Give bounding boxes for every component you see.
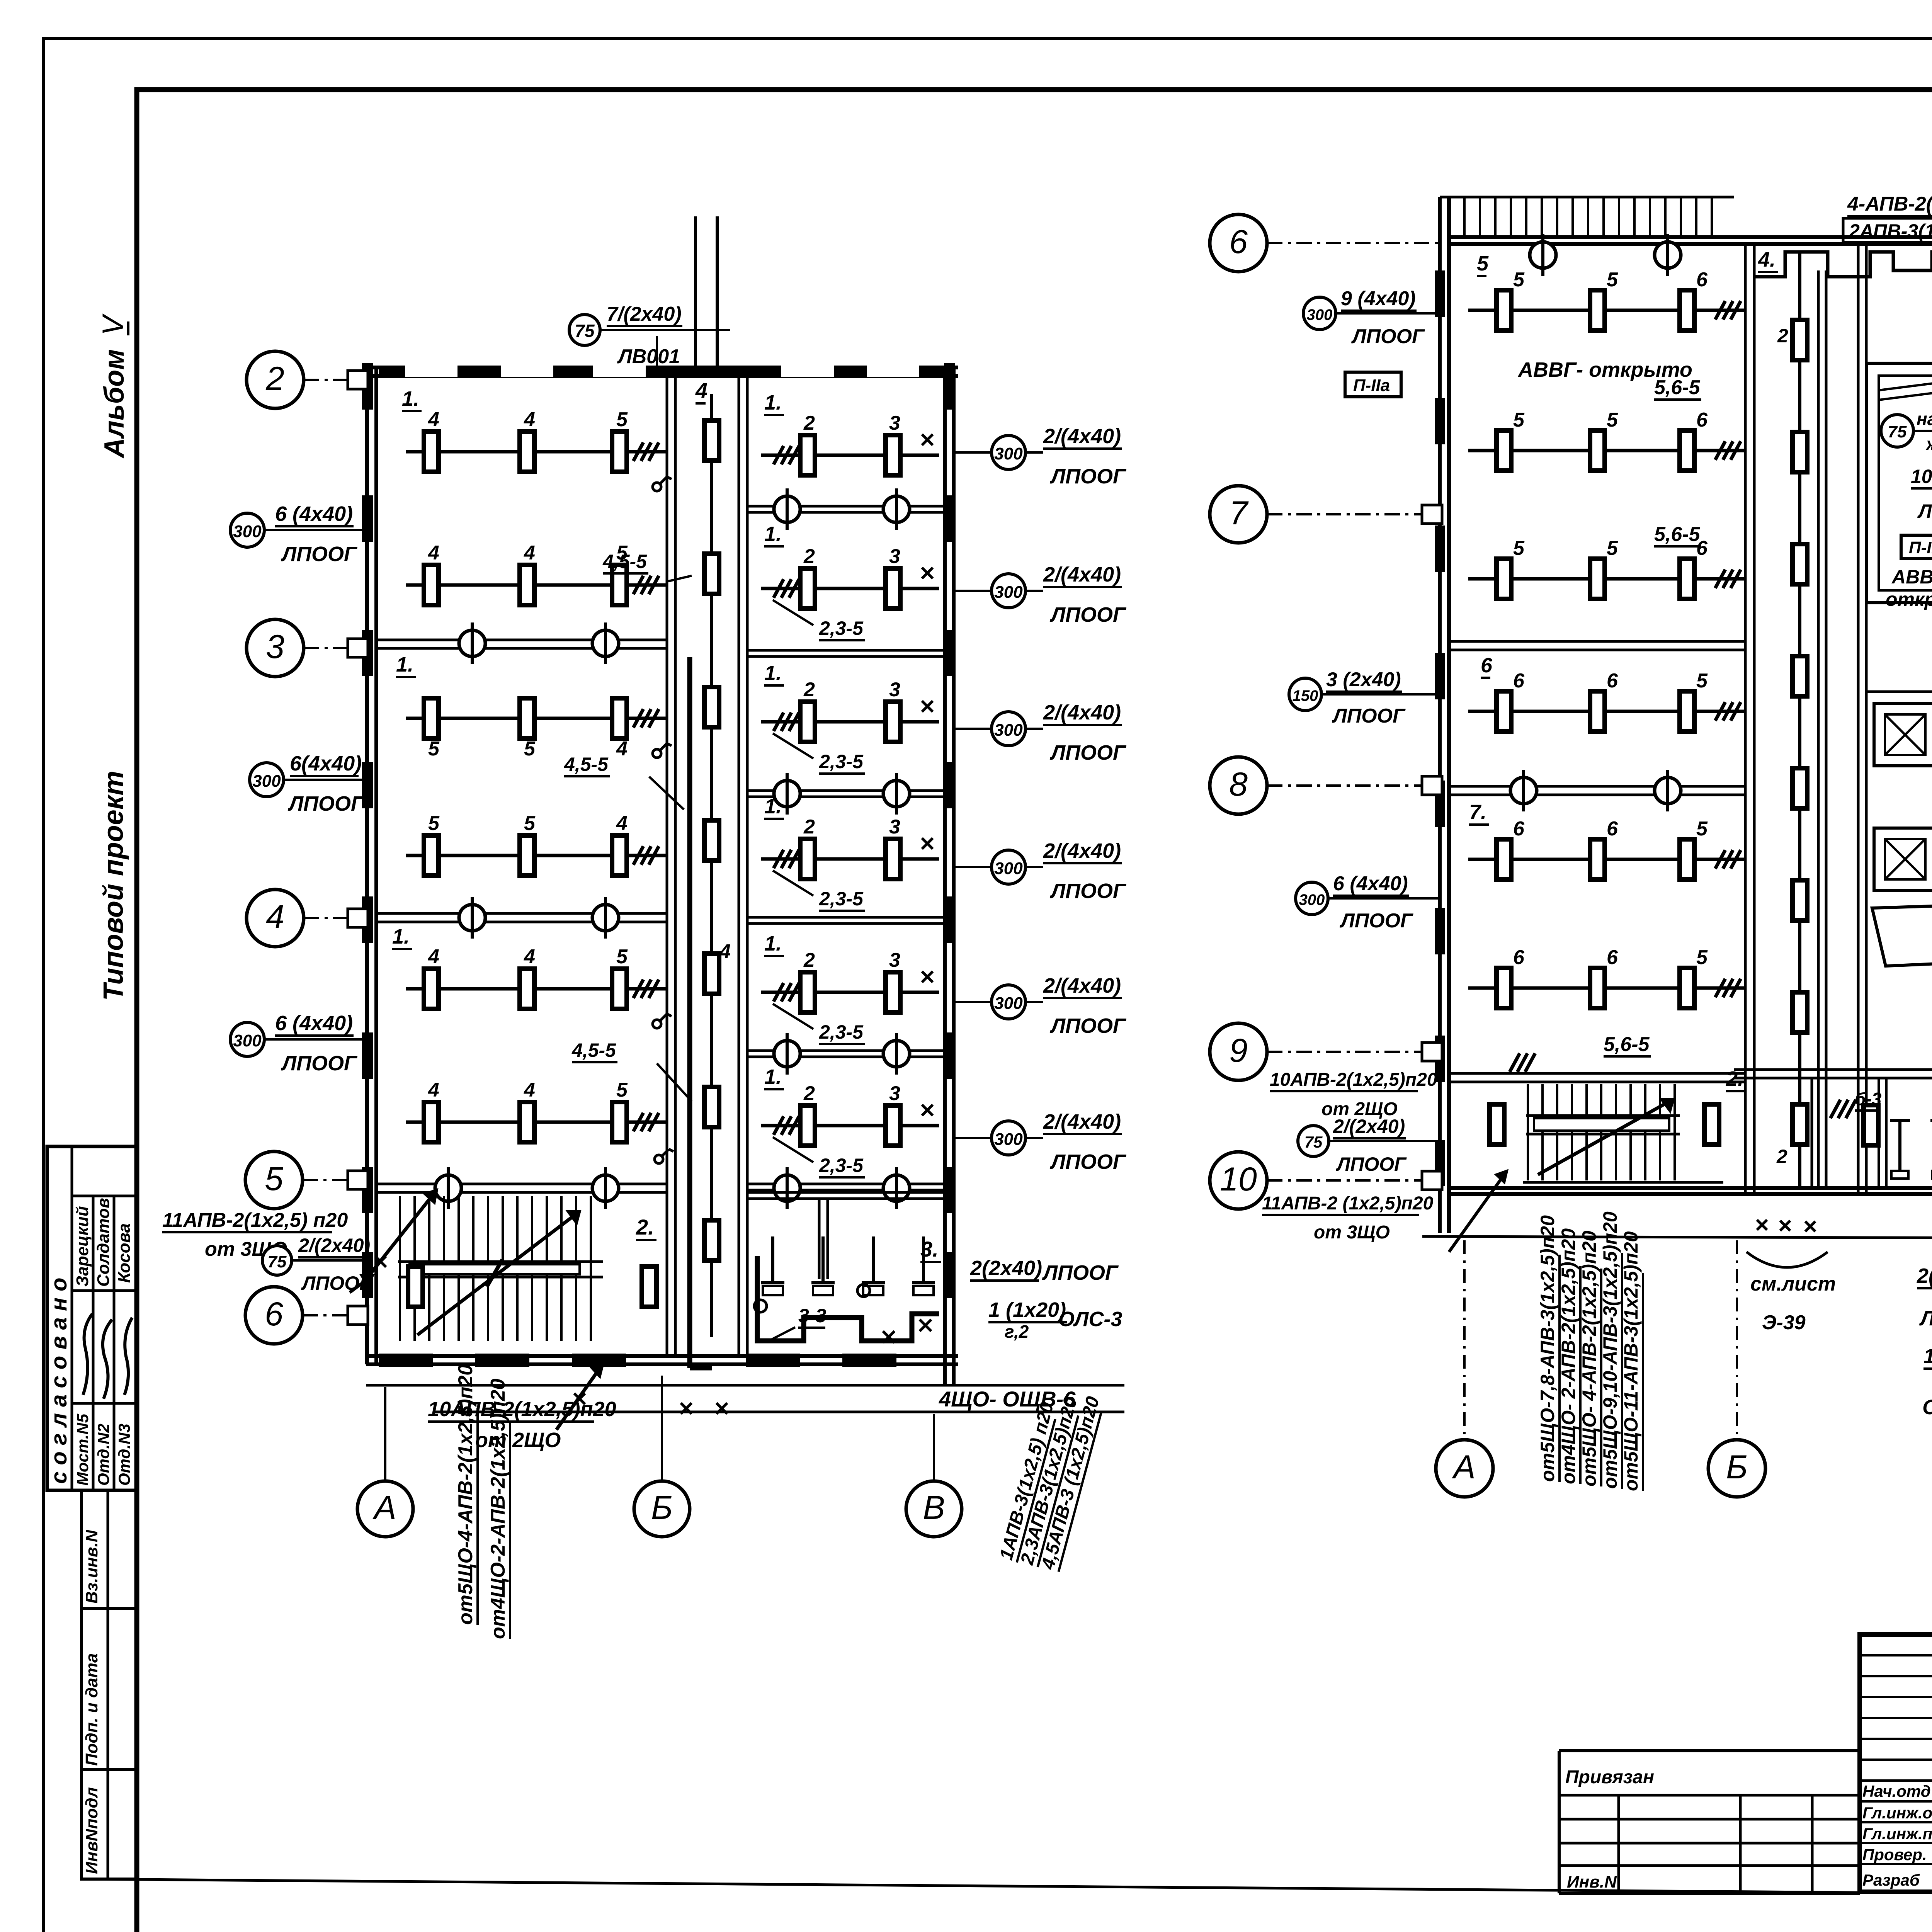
- svg-text:2(2х40): 2(2х40): [1917, 1264, 1932, 1287]
- svg-text:3: 3: [889, 816, 900, 838]
- svg-text:75: 75: [575, 321, 595, 341]
- title block role/name rows: [1862, 1781, 1932, 1889]
- strip text: Подп. и дата (rotated): [82, 1653, 101, 1766]
- svg-text:1.: 1.: [764, 1065, 782, 1088]
- stamp names (rotated): [73, 1198, 134, 1287]
- svg-text:2: 2: [803, 679, 815, 701]
- svg-text:Провер.: Провер.: [1862, 1845, 1927, 1864]
- svg-text:Гл.инж.пр: Гл.инж.пр: [1862, 1825, 1932, 1843]
- left plan: corridor walls: [667, 376, 747, 1356]
- svg-text:от 3ЩО: от 3ЩО: [1314, 1222, 1390, 1243]
- svg-text:ЛПООГ: ЛПООГ: [1332, 705, 1406, 727]
- bottom axis circle Б (right plan): [1708, 1240, 1765, 1497]
- svg-text:6: 6: [1513, 818, 1525, 840]
- right plan corridor riser wires: [1818, 270, 1826, 1188]
- feeder 300 2/(4x40) ЛПООГ east 3: [954, 701, 1127, 764]
- note 3-3: [769, 1305, 826, 1341]
- label 3. (sanitary): [920, 1237, 941, 1262]
- corridor labels 2: [1776, 325, 1788, 1167]
- west wing luminaire row 6 (circuit line): [406, 1079, 667, 1142]
- svg-text:4: 4: [428, 408, 439, 431]
- elevator shaft 2: [1874, 828, 1932, 890]
- svg-text:8: 8: [1229, 766, 1248, 803]
- svg-text:2/(4х40): 2/(4х40): [1043, 701, 1121, 724]
- svg-text:6: 6: [1607, 946, 1618, 969]
- svg-text:2/(4х40): 2/(4х40): [1043, 974, 1121, 997]
- svg-text:ЛПООГ: ЛПООГ: [1336, 1153, 1407, 1175]
- svg-text:Подп. и дата: Подп. и дата: [82, 1653, 101, 1766]
- axis circle 8 (right plan): [1210, 757, 1440, 814]
- svg-text:5: 5: [524, 738, 536, 760]
- svg-text:1.: 1.: [764, 662, 782, 685]
- svg-text:2: 2: [803, 816, 815, 838]
- inventory strip boxes: [82, 1490, 137, 1879]
- svg-text:2,3-5: 2,3-5: [819, 1155, 864, 1176]
- feeder 75 2(2x40) ЛПООГ (right plan): [1298, 1116, 1440, 1175]
- west wing switch drops: [653, 477, 673, 1163]
- svg-text:300: 300: [233, 1031, 262, 1050]
- axis circle 10 (right plan): [1210, 1152, 1440, 1209]
- left plan: interior walls east wing: [747, 506, 945, 1190]
- svg-text:ОЛС-3: ОЛС-3: [1058, 1308, 1122, 1331]
- svg-text:2,3-5: 2,3-5: [819, 617, 864, 639]
- feeder 300 2/(4x40) ЛПООГ east 5: [954, 974, 1127, 1037]
- west wing note 4,5-5: [602, 551, 692, 582]
- corridor switch riser wire: [690, 657, 712, 1368]
- label 2. (stair room): [636, 1215, 656, 1240]
- west wing note 4,5-5 (3): [571, 1039, 692, 1101]
- svg-text:П-IIа: П-IIа: [1909, 538, 1932, 557]
- left plan: exterior walls: [366, 367, 1124, 1385]
- ceiling lamps on west wing walls (right plan): [1510, 770, 1681, 811]
- right plan west wing luminaire row 2: [1468, 409, 1745, 471]
- label АВВГ-открыто: [1517, 358, 1692, 381]
- svg-text:Косова: Косова: [115, 1223, 134, 1283]
- east wing luminaire row 6: [761, 1082, 939, 1146]
- svg-text:6: 6: [1607, 818, 1618, 840]
- svg-text:300: 300: [994, 994, 1023, 1013]
- svg-text:3 (2х40): 3 (2х40): [1326, 668, 1401, 691]
- svg-text:2(2х40): 2(2х40): [970, 1257, 1042, 1280]
- svg-text:Отд.N3: Отд.N3: [115, 1423, 133, 1486]
- approval stamp box: [47, 1146, 137, 1490]
- svg-text:3: 3: [889, 412, 900, 434]
- svg-text:1.: 1.: [392, 925, 410, 948]
- svg-text:ЛПООГ: ЛПООГ: [1919, 1307, 1932, 1330]
- svg-text:300: 300: [994, 859, 1023, 878]
- svg-text:Гл.инж.от.: Гл.инж.от.: [1862, 1804, 1932, 1822]
- svg-text:ЛПООГ: ЛПООГ: [1049, 465, 1127, 488]
- riser labels (rotated) below right plan stair: [1537, 1211, 1643, 1491]
- right plan west wing luminaire row 6: [1468, 946, 1745, 1008]
- svg-text:от4ЩО-2-АПВ-2(1х2,5)п20: от4ЩО-2-АПВ-2(1х2,5)п20: [487, 1379, 509, 1639]
- bottom axis circle А (left plan): [357, 1387, 413, 1537]
- svg-text:5: 5: [616, 946, 628, 968]
- svg-text:5: 5: [1607, 537, 1618, 560]
- svg-text:на стелла-: на стелла-: [1917, 409, 1932, 429]
- svg-text:А: А: [1451, 1449, 1475, 1486]
- sanitary wiring meander: [754, 1256, 939, 1343]
- bottom axis circle В (left plan): [906, 1414, 962, 1537]
- svg-text:5: 5: [616, 408, 628, 431]
- svg-text:от5ЩО-11-АПВ-3(1х2,5)п20: от5ЩО-11-АПВ-3(1х2,5)п20: [1620, 1231, 1642, 1491]
- feeder 300 6(4x40) ЛПООГ (axis 4-5): [230, 1012, 367, 1075]
- svg-text:5: 5: [1696, 670, 1708, 692]
- corridor label 4: [695, 378, 731, 963]
- svg-text:4: 4: [266, 898, 284, 935]
- svg-text:5: 5: [1607, 269, 1618, 291]
- elevator shaft 1: [1874, 704, 1932, 766]
- axis circle 3: [247, 619, 366, 677]
- label П-IIа (middle): [1901, 535, 1932, 558]
- vestibule zigzag wall (top middle): [1754, 252, 1932, 277]
- feeder note 10АПВ-2(1х2,5)п20 от 2ЩО (right plan): [1270, 1070, 1437, 1119]
- right plan: west wing partition walls: [1449, 641, 1745, 1082]
- svg-text:2,3-5: 2,3-5: [819, 751, 864, 772]
- svg-text:4.: 4.: [1758, 248, 1776, 271]
- svg-text:10: 10: [1220, 1161, 1257, 1198]
- svg-text:5: 5: [428, 738, 440, 760]
- svg-text:В: В: [923, 1489, 945, 1526]
- label 4ЩО-ОЩВ-6: [939, 1387, 1076, 1412]
- svg-text:Вз.инв.N: Вз.инв.N: [82, 1529, 101, 1604]
- west wing luminaire row 1 (circuit line): [406, 408, 667, 472]
- svg-text:300: 300: [1307, 306, 1333, 323]
- svg-text:6: 6: [1607, 670, 1618, 692]
- svg-text:Солдатов: Солдатов: [94, 1198, 113, 1287]
- svg-text:4: 4: [524, 408, 535, 431]
- west wing luminaire row 2 (circuit line): [406, 542, 667, 605]
- svg-text:3: 3: [889, 545, 900, 568]
- svg-text:1 (1х20): 1 (1х20): [1923, 1345, 1932, 1368]
- svg-text:5: 5: [1513, 409, 1525, 431]
- svg-text:ЛПООГ: ЛПООГ: [1042, 1261, 1119, 1284]
- feeder 300 2/(4x40) ЛПООГ east 6: [954, 1110, 1127, 1173]
- strip text: Вз.инв.N (rotated): [82, 1529, 101, 1604]
- svg-text:4: 4: [524, 542, 535, 564]
- svg-text:5,6-5: 5,6-5: [1604, 1033, 1650, 1056]
- stair lamp (right plan): [1490, 1053, 1719, 1145]
- svg-text:ЛПООГ: ЛПООГ: [1049, 741, 1127, 764]
- svg-text:2: 2: [1776, 1146, 1787, 1167]
- svg-text:6: 6: [1696, 409, 1708, 431]
- margin note: Типовой проект (rotated): [98, 771, 129, 1001]
- svg-text:5: 5: [1607, 409, 1618, 431]
- svg-text:Разраб: Разраб: [1862, 1871, 1920, 1889]
- feeder 300 2/(4x40) ЛПООГ east 2: [954, 563, 1127, 626]
- svg-text:жах: жах: [1925, 434, 1932, 454]
- east wing notes 2,3-5: [773, 600, 865, 1177]
- svg-text:6: 6: [1481, 654, 1493, 677]
- svg-text:5: 5: [616, 1079, 628, 1101]
- axis circle 4: [247, 889, 366, 947]
- bottom corridor wall (right plan): [1734, 1070, 1932, 1078]
- right plan: top stair hatch: [1464, 197, 1712, 237]
- ceiling lamps on west wing partition walls: [435, 622, 619, 1209]
- svg-text:5,6-5: 5,6-5: [1654, 523, 1701, 546]
- svg-text:7: 7: [1229, 495, 1249, 532]
- svg-text:2/(4х40): 2/(4х40): [1043, 1110, 1121, 1133]
- brace см.лист Э-39: [1747, 1252, 1836, 1334]
- svg-text:А: А: [372, 1489, 396, 1526]
- room labels right plan west: [1469, 248, 1778, 1091]
- svg-text:2: 2: [803, 545, 815, 568]
- extension labels: [1565, 1767, 1654, 1891]
- svg-text:5: 5: [1696, 946, 1708, 969]
- svg-text:ЛПООГ: ЛПООГ: [1917, 500, 1932, 522]
- label П-IIа (left of right plan): [1345, 372, 1401, 397]
- svg-text:4: 4: [524, 946, 535, 968]
- right plan west wing luminaire row 4: [1468, 670, 1745, 731]
- west wing luminaire row 3 (circuit line): [406, 698, 667, 760]
- east wing luminaire row 5: [761, 949, 939, 1012]
- svg-text:4: 4: [719, 940, 731, 963]
- svg-text:6: 6: [1229, 223, 1248, 260]
- east wing luminaire row 4: [761, 816, 939, 879]
- svg-text:от4ЩО- 2-АПВ-2(1х2,5)п20: от4ЩО- 2-АПВ-2(1х2,5)п20: [1558, 1228, 1579, 1484]
- svg-text:1.: 1.: [764, 522, 782, 546]
- svg-text:ЛПООГ: ЛПООГ: [281, 543, 358, 566]
- svg-text:10 (2х40): 10 (2х40): [1911, 466, 1932, 487]
- svg-text:от5ЩО-9,10-АПВ-3(1х2,5)п20: от5ЩО-9,10-АПВ-3(1х2,5)п20: [1599, 1211, 1621, 1489]
- svg-text:4: 4: [428, 542, 439, 564]
- svg-text:Мост.N5: Мост.N5: [73, 1413, 92, 1486]
- right plan: lamps on top wall: [1530, 234, 1681, 276]
- svg-text:4: 4: [695, 378, 707, 403]
- stamp signatures (rotated squiggles): [83, 1314, 132, 1399]
- left plan: interior walls west wing: [376, 640, 667, 1192]
- title block outline: [1860, 1634, 1932, 1892]
- feeder 300 2/(4x40) ЛПООГ east 1: [954, 425, 1127, 488]
- axis wall stubs (right plan): [1422, 505, 1442, 1190]
- svg-text:ЛПООГ: ЛПООГ: [1351, 325, 1425, 348]
- right plan west wing luminaire row 1: [1468, 269, 1745, 330]
- strip text: Инв.N подл (rotated): [82, 1787, 101, 1874]
- svg-text:300: 300: [994, 721, 1023, 740]
- svg-text:6 (4х40): 6 (4х40): [1333, 872, 1408, 895]
- svg-text:ЛПООГ: ЛПООГ: [287, 792, 365, 815]
- svg-text:4-АПВ-2(1х2,5) п20 от 5ЩО: 4-АПВ-2(1х2,5) п20 от 5ЩО: [1847, 193, 1932, 215]
- svg-text:2,3-5: 2,3-5: [819, 1021, 864, 1043]
- svg-text:300: 300: [994, 1130, 1023, 1149]
- svg-text:б-3: б-3: [1855, 1089, 1882, 1109]
- stairwell (left plan): [398, 1196, 603, 1341]
- svg-text:75: 75: [268, 1252, 287, 1271]
- feeder 300 2/(4x40) ЛПООГ east 4: [954, 839, 1127, 903]
- west wing room labels 1.: [392, 387, 422, 949]
- stair landing lamp: [408, 1267, 423, 1307]
- svg-text:6 (4х40): 6 (4х40): [275, 502, 353, 526]
- margin note: Альбом V (rotated): [97, 313, 130, 459]
- svg-text:АВВГ: АВВГ: [1891, 566, 1932, 588]
- svg-text:от5ЩО-4-АПВ-2(1х2,5)п20: от5ЩО-4-АПВ-2(1х2,5)п20: [454, 1364, 477, 1625]
- svg-text:3.: 3.: [920, 1237, 939, 1261]
- label АВВГ открыто (middle): [1886, 566, 1932, 610]
- svg-text:300: 300: [994, 444, 1023, 463]
- feeder 75 на стеллажах 10(2х40) ЛПООГ: [1881, 409, 1932, 522]
- axis wall stubs (left): [348, 371, 368, 1325]
- cable labels (rotated) below axis В: [996, 1394, 1104, 1572]
- svg-text:75: 75: [1304, 1133, 1323, 1151]
- corridor circuit (vertical chain of luminaires): [704, 394, 719, 1337]
- svg-text:300: 300: [233, 522, 262, 541]
- title block left extension: [1559, 1751, 1860, 1893]
- svg-text:2: 2: [803, 1082, 815, 1105]
- svg-text:3: 3: [266, 628, 284, 665]
- right plan west wing luminaire row 3: [1468, 537, 1745, 599]
- svg-text:1.: 1.: [764, 391, 782, 414]
- svg-text:Альбом: Альбом: [99, 349, 130, 459]
- svg-text:Нач.отд: Нач.отд: [1862, 1782, 1931, 1800]
- svg-text:4,5-5: 4,5-5: [571, 1039, 616, 1061]
- lobby machine-room wall: [1866, 692, 1932, 900]
- bottom axis circle А (right plan): [1436, 1240, 1493, 1497]
- storage room (стеллажи): [1866, 363, 1932, 603]
- svg-text:с о г л а с о в а н о: с о г л а с о в а н о: [46, 1277, 71, 1484]
- svg-text:4: 4: [616, 738, 628, 760]
- svg-text:Б: Б: [1726, 1449, 1748, 1486]
- east wing room labels 1.: [764, 391, 784, 1089]
- svg-text:ЛПООГ: ЛПООГ: [301, 1272, 372, 1294]
- svg-text:6: 6: [1696, 269, 1708, 291]
- svg-text:2: 2: [803, 412, 815, 434]
- svg-text:2: 2: [803, 949, 815, 971]
- svg-text:ЛПООГ: ЛПООГ: [281, 1052, 358, 1075]
- svg-text:4,5-5: 4,5-5: [602, 551, 647, 572]
- svg-text:4: 4: [428, 946, 439, 968]
- svg-text:4: 4: [524, 1079, 535, 1101]
- svg-text:5: 5: [265, 1160, 284, 1197]
- svg-text:1.: 1.: [396, 653, 413, 676]
- feeder note 11АПВ-2(1х2,5)п20 от 3ЩО (right plan): [1262, 1171, 1507, 1252]
- baseline to title block: [82, 1879, 1860, 1893]
- svg-text:5: 5: [1513, 537, 1525, 560]
- svg-text:11АПВ-2(1х2,5) п20: 11АПВ-2(1х2,5) п20: [162, 1209, 348, 1231]
- ceiling lamps on east wing partition walls: [774, 488, 910, 1209]
- svg-text:5: 5: [1477, 252, 1489, 275]
- svg-text:2: 2: [1777, 325, 1788, 347]
- svg-text:11АПВ-2 (1х2,5)п20: 11АПВ-2 (1х2,5)п20: [1262, 1193, 1434, 1214]
- svg-text:5: 5: [1513, 269, 1525, 291]
- feeder 300 6(4x40) ЛПООГ (axis 3-4): [250, 752, 367, 815]
- labels 2(2x40) ЛПООГ 1(1x20) ОЛС-3 (left plan): [970, 1257, 1122, 1342]
- left plan: wall piers / window blocks: [362, 363, 955, 1367]
- stair lamp (corridor side): [642, 1267, 656, 1307]
- svg-text:2: 2: [265, 360, 284, 397]
- svg-text:5: 5: [524, 812, 536, 835]
- svg-text:ОЛС-3: ОЛС-3: [1922, 1396, 1932, 1419]
- east wing luminaire row 2: [761, 545, 939, 609]
- vestibule lamp label: [0, 0, 0, 0]
- stamp labels (rotated): [73, 1413, 133, 1486]
- svg-text:6: 6: [1513, 946, 1525, 969]
- feeder 300 6(4x40) ЛПООГ (axis 8-9): [1296, 872, 1440, 932]
- svg-text:Типовой проект: Типовой проект: [98, 771, 129, 1001]
- svg-text:3: 3: [889, 679, 900, 701]
- svg-text:4ЩО- ОЩВ-6: 4ЩО- ОЩВ-6: [939, 1387, 1076, 1411]
- svg-text:9 (4х40): 9 (4х40): [1341, 287, 1416, 310]
- svg-text:150: 150: [1293, 687, 1318, 704]
- svg-text:300: 300: [994, 583, 1023, 602]
- ground line below right plan: [1422, 1236, 1932, 1239]
- feeder note 4-АПВ-2(1х2,5)п20 от5ЩО: [1847, 193, 1932, 216]
- svg-text:5: 5: [1696, 818, 1708, 840]
- svg-text:2/(4х40): 2/(4х40): [1043, 563, 1121, 586]
- svg-text:ЛПООГ: ЛПООГ: [1339, 910, 1413, 932]
- svg-text:открыто: открыто: [1886, 588, 1932, 610]
- svg-text:Б: Б: [651, 1489, 673, 1526]
- svg-text:ЛПООГ: ЛПООГ: [1049, 879, 1127, 903]
- svg-text:2/(2х40): 2/(2х40): [1333, 1116, 1405, 1137]
- axis circle 6 (right plan): [1210, 214, 1440, 272]
- svg-text:П-IIа: П-IIа: [1353, 376, 1390, 395]
- svg-text:4: 4: [616, 812, 628, 835]
- west wing luminaire row 5 (circuit line): [406, 946, 667, 1009]
- feeder 300 6(4x40) ЛПООГ (axis 2-3): [230, 502, 367, 566]
- risers above plan: [696, 216, 717, 367]
- svg-text:3: 3: [889, 949, 900, 971]
- east wing luminaire row 3: [761, 679, 939, 742]
- axis circle 2: [247, 351, 366, 408]
- svg-text:2АПВ-3(1х2,5) п20: 2АПВ-3(1х2,5) п20: [1849, 220, 1932, 242]
- feeder note 2АПВ-3(1х2,5)п20 от4ЧЩ: [1843, 218, 1932, 243]
- notes 5,6-5: [1604, 376, 1701, 1056]
- svg-text:7.: 7.: [1469, 801, 1486, 824]
- circuit line below plan: [433, 1403, 1124, 1414]
- west wing luminaire row 4 (circuit line): [406, 812, 667, 876]
- svg-text:4,5-5: 4,5-5: [564, 753, 609, 775]
- svg-text:2/(4х40): 2/(4х40): [1043, 839, 1121, 862]
- svg-text:75: 75: [1888, 422, 1907, 441]
- svg-text:7/(2х40): 7/(2х40): [607, 303, 682, 325]
- svg-text:5,6-5: 5,6-5: [1654, 376, 1701, 399]
- svg-text:ЛПООГ: ЛПООГ: [1049, 1150, 1127, 1173]
- feeder 150 3(2x40) ЛПООГ: [1289, 668, 1440, 727]
- svg-text:2/(4х40): 2/(4х40): [1043, 425, 1121, 448]
- labels 2(2x40) ЛПООГ 1(1x20) ОЛС-3 (right plan): [1917, 1264, 1932, 1419]
- svg-text:6: 6: [1513, 670, 1525, 692]
- feeder note 10АПВ-2(1х2,5)п20 от 2ЩО: [428, 1364, 616, 1452]
- svg-text:ЛПООГ: ЛПООГ: [1049, 603, 1127, 626]
- svg-text:2/(2х40): 2/(2х40): [298, 1235, 370, 1256]
- feeder 75 2(2x40) ЛПООГ (stair): [262, 1235, 372, 1294]
- svg-text:см.лист: см.лист: [1750, 1273, 1836, 1295]
- svg-text:Э-39: Э-39: [1762, 1311, 1806, 1334]
- svg-text:5: 5: [428, 812, 440, 835]
- right plan: exterior and section walls: [1440, 197, 1932, 1233]
- feeder note 11АПВ-2(1х2,5)п20 от 3ЩО with arrow: [162, 1190, 437, 1293]
- right plan west wing luminaire row 5: [1468, 818, 1745, 879]
- axis circle 9 (right plan): [1210, 1023, 1440, 1080]
- svg-text:ЛВ001: ЛВ001: [617, 345, 680, 368]
- feeder 75 7/(2x40) ЛВ001 (top): [569, 303, 730, 368]
- axis circle 7 (right plan): [1210, 486, 1440, 543]
- feeder 300 9(4x40) ЛПООГ (axis 6-7): [1303, 287, 1440, 348]
- svg-text:ЛПООГ: ЛПООГ: [1049, 1014, 1127, 1037]
- right plan stairwell: [1523, 1084, 1723, 1182]
- axis circle 6: [245, 1287, 366, 1344]
- svg-text:6(4х40): 6(4х40): [290, 752, 362, 775]
- svg-text:4: 4: [428, 1079, 439, 1101]
- svg-text:300: 300: [1299, 891, 1325, 908]
- svg-text:V: V: [97, 313, 129, 335]
- svg-text:Отд.N2: Отд.N2: [94, 1423, 112, 1486]
- svg-text:Зарецкий: Зарецкий: [73, 1206, 92, 1287]
- axis circle 5: [245, 1151, 366, 1209]
- sanitary rooms (right plan): [1757, 1078, 1932, 1231]
- svg-text:6 (4х40): 6 (4х40): [275, 1012, 353, 1035]
- svg-text:3-3: 3-3: [798, 1305, 826, 1327]
